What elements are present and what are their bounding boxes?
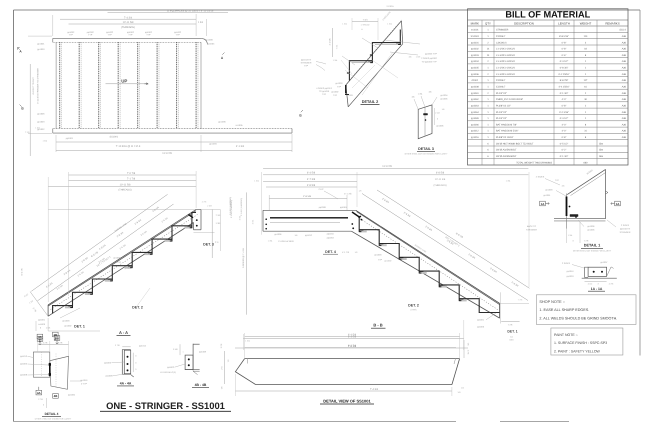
right stair corner joint marks — [352, 212, 360, 218]
svg-text:TYP: TYP — [128, 34, 133, 37]
svg-text:1'-1 5/8: 1'-1 5/8 — [329, 38, 332, 46]
svg-text:TOTAL WEIGHT THIS DRAWING: TOTAL WEIGHT THIS DRAWING — [516, 161, 552, 164]
section 4B-4B — [160, 344, 209, 388]
svg-text:pp1064: pp1064 — [471, 111, 479, 114]
svg-text:11 EQ SPACES @ 10 13/16 = 9'-1: 11 EQ SPACES @ 10 13/16 = 9'-10 15/16 — [167, 10, 214, 13]
svg-text:10'-11 5/8: 10'-11 5/8 — [123, 21, 134, 24]
svg-text:7'-4 3/4: 7'-4 3/4 — [370, 388, 379, 391]
right stair bottom end details — [500, 292, 502, 323]
svg-text:pp1002: pp1002 — [65, 325, 73, 328]
bill of material table — [468, 9, 629, 165]
svg-text:11'-3 7/8: 11'-3 7/8 — [382, 165, 392, 168]
DETAIL 1 view — [526, 168, 631, 252]
detail2 steps — [349, 30, 400, 81]
svg-text:L1-1/4X1-1/4X1/4: L1-1/4X1-1/4X1/4 — [496, 73, 515, 76]
svg-text:7'-10 9/16 @ 11 = 8'-3: 7'-10 9/16 @ 11 = 8'-3 — [116, 145, 141, 148]
svg-text:DIM: DIM — [510, 339, 514, 342]
right stair nosing dotted line — [358, 217, 499, 310]
svg-text:DETAIL VIEW OF SS1001: DETAIL VIEW OF SS1001 — [323, 398, 371, 403]
svg-text:2 SIDES: 2 SIDES — [536, 176, 545, 179]
svg-text:0'-8": 0'-8" — [562, 104, 567, 107]
svg-text:OTHER STEEL MAY NOT SHOWN FOR: OTHER STEEL MAY NOT SHOWN FOR CLARITY — [405, 153, 449, 156]
DETAIL 2 enlarged stringer view — [329, 5, 438, 107]
svg-text:pp1002: pp1002 — [125, 267, 133, 270]
detail2 left dims — [331, 28, 333, 57]
svg-text:2'-6 3/4 (LANDING): 2'-6 3/4 (LANDING) — [240, 198, 243, 216]
svg-text:pp1001: pp1001 — [66, 137, 74, 140]
svg-text:PL1/4"X2": PL1/4"X2" — [496, 117, 507, 120]
detail view of SS1001 channel — [220, 333, 470, 404]
svg-text:C10X8.7: C10X8.7 — [496, 35, 506, 38]
svg-text:pp1004: pp1004 — [471, 60, 479, 63]
landing sub dimension — [269, 198, 347, 200]
svg-text:BAT HAGS4X6 5/16": BAT HAGS4X6 5/16" — [496, 130, 518, 133]
svg-text:OTHER STEEL NOT SHOWN FOR CLAR: OTHER STEEL NOT SHOWN FOR CLARITY — [35, 417, 72, 420]
svg-text:PL1/4"X2": PL1/4"X2" — [496, 111, 507, 114]
svg-text:TYP: TYP — [304, 65, 309, 68]
svg-text:LENGTH: LENGTH — [558, 21, 570, 25]
svg-text:1. SURFACE FINISH : SSPC-SP3: 1. SURFACE FINISH : SSPC-SP3 — [554, 341, 607, 345]
detail1 heavy bar and bolts — [566, 197, 568, 217]
svg-text:B - B: B - B — [373, 323, 382, 328]
4a4a top dim — [122, 346, 130, 348]
svg-text:PL3/8"X2 15/16": PL3/8"X2 15/16" — [496, 136, 514, 139]
svg-text:CHKD_PL7-1/4X1/4X1/8": CHKD_PL7-1/4X1/4X1/8" — [496, 98, 523, 101]
svg-text:4'-1 7/8: 4'-1 7/8 — [342, 251, 350, 254]
svg-text:pp1002: pp1002 — [332, 91, 340, 94]
left stair channel chords — [48, 210, 196, 305]
plan left dimension column — [29, 64, 31, 156]
svg-text:pp1003: pp1003 — [375, 254, 383, 257]
section 4A-4A — [104, 344, 147, 386]
svg-text:DETAIL 2: DETAIL 2 — [362, 100, 379, 104]
svg-text:pp1003: pp1003 — [471, 54, 479, 57]
svg-text:4A - 4A: 4A - 4A — [120, 382, 132, 386]
svg-text:pp1013 TO: pp1013 TO — [301, 58, 312, 61]
drawing title ONE - STRINGER - SS1001 — [100, 400, 231, 411]
svg-text:pp1001: pp1001 — [37, 42, 45, 45]
svg-text:0'-6": 0'-6" — [562, 54, 567, 57]
svg-text:2 SIDES: 2 SIDES — [621, 224, 630, 227]
svg-text:REMARKS: REMARKS — [605, 21, 619, 25]
svg-text:BAT HAGS4X6 7/8": BAT HAGS4X6 7/8" — [496, 123, 517, 126]
svg-text:pp1008: pp1008 — [20, 374, 28, 377]
svg-text:7 3/4: 7 3/4 — [363, 18, 369, 21]
svg-text:pp1004: pp1004 — [209, 143, 217, 146]
svg-text:2 SIDES: 2 SIDES — [562, 262, 571, 265]
svg-text:(THREADS): (THREADS) — [121, 26, 135, 29]
svg-text:0'-8": 0'-8" — [562, 41, 567, 44]
4a4a right dim ticks — [132, 353, 134, 372]
svg-text:6'-8 5/8: 6'-8 5/8 — [436, 172, 445, 175]
ss1001 left small dims — [224, 351, 226, 384]
svg-text:1A - 1A: 1A - 1A — [591, 287, 603, 291]
svg-text:pp1006: pp1006 — [437, 125, 445, 128]
svg-text:A36: A36 — [622, 86, 627, 89]
svg-text:OTHER STEEL NOT SHOWN FOR CLAR: OTHER STEEL NOT SHOWN FOR CLARITY — [573, 250, 612, 253]
svg-text:A36: A36 — [622, 136, 627, 139]
plan bottom dimension rows — [56, 141, 201, 143]
1a1a left angle — [585, 267, 589, 277]
svg-text:8'-8 9/16": 8'-8 9/16" — [559, 35, 569, 38]
svg-text:ss1001: ss1001 — [347, 94, 355, 97]
svg-text:pp1003: pp1003 — [104, 362, 112, 365]
svg-text:11 3/16: 11 3/16 — [386, 5, 394, 8]
left vertical dims of B-B — [246, 192, 248, 314]
svg-text:1. EASE ALL SHARP EDGES.: 1. EASE ALL SHARP EDGES. — [539, 308, 589, 312]
svg-text:pp1003: pp1003 — [546, 189, 554, 192]
ss1001 top dims — [245, 336, 460, 338]
svg-text:PL1/4"X2": PL1/4"X2" — [496, 92, 507, 95]
ss1001 inner end ticks — [247, 359, 249, 364]
svg-text:0'-8": 0'-8" — [562, 48, 567, 51]
svg-text:4'-1 7/8: 4'-1 7/8 — [344, 192, 352, 195]
svg-text:0'-8 3/4": 0'-8 3/4" — [560, 67, 569, 70]
svg-text:ss1006: ss1006 — [38, 323, 46, 326]
svg-text:L1-1/4X1-1/4X1/4: L1-1/4X1-1/4X1/4 — [496, 67, 515, 70]
left stair upper-left dimension band — [31, 194, 167, 291]
svg-text:3/4"Ø HILTI KWIK BOLT TZ2 BOLT: 3/4"Ø HILTI KWIK BOLT TZ2 BOLT — [496, 142, 534, 145]
landing heavy web line — [270, 217, 348, 219]
svg-text:7'-4 3/4: 7'-4 3/4 — [124, 16, 133, 19]
svg-text:3'-11 3/4 STRINGER TO STRINGER: 3'-11 3/4 STRINGER TO STRINGER — [37, 68, 40, 104]
svg-text:pp1005: pp1005 — [588, 229, 596, 232]
svg-text:pp1001: pp1001 — [471, 41, 479, 44]
svg-text:TYP: TYP — [337, 86, 342, 89]
svg-text:pp1001: pp1001 — [477, 319, 485, 322]
svg-text:TYP: TYP — [69, 34, 74, 37]
svg-text:pp1002: pp1002 — [167, 366, 175, 369]
svg-text:4B - 4B: 4B - 4B — [195, 383, 207, 387]
svg-text:A36: A36 — [622, 73, 627, 76]
ss1001 bottom dim — [235, 390, 452, 392]
paint note box — [551, 328, 623, 355]
svg-text:pp1005: pp1005 — [441, 97, 449, 100]
svg-text:TYP: TYP — [146, 34, 151, 37]
shop note box — [536, 295, 636, 325]
detail2 corner black mark — [345, 85, 347, 94]
detail4 heavy bolt bar — [49, 363, 51, 376]
svg-text:pp1008: pp1008 — [106, 375, 114, 378]
svg-text:pp1062: pp1062 — [471, 98, 479, 101]
svg-text:6'-4 5/8: 6'-4 5/8 — [348, 334, 357, 337]
left stair elevation section A-A — [21, 171, 244, 345]
svg-text:C10X8.7: C10X8.7 — [496, 79, 506, 82]
plan rounded corner top right — [201, 38, 208, 44]
svg-text:Site: Site — [599, 142, 604, 145]
landing bolts — [265, 218, 267, 220]
svg-text:pp1003: pp1003 — [114, 257, 122, 260]
svg-text:pp1003: pp1003 — [63, 320, 71, 323]
svg-text:10'-11 5/8: 10'-11 5/8 — [435, 178, 446, 181]
section 1A-1A — [562, 261, 617, 291]
svg-text:pp1014: pp1014 — [139, 344, 147, 347]
svg-text:pp1007: pp1007 — [601, 261, 609, 264]
section flags 4A 4B below left stair — [37, 337, 43, 342]
svg-text:FLUSH at WEB: FLUSH at WEB — [278, 240, 294, 243]
svg-text:0'-1 3/4": 0'-1 3/4" — [560, 92, 569, 95]
svg-text:A36: A36 — [622, 123, 627, 126]
svg-text:pp1003: pp1003 — [37, 121, 45, 124]
svg-text:BACK TO: BACK TO — [527, 225, 536, 228]
svg-text:8'-3 7/8: 8'-3 7/8 — [348, 345, 357, 348]
svg-text:DETAIL 1: DETAIL 1 — [584, 244, 601, 248]
svg-text:WEIGHT: WEIGHT — [580, 21, 592, 25]
svg-text:ONE - STRINGER - SS1001: ONE - STRINGER - SS1001 — [106, 400, 225, 411]
B-B bottom dimensions — [243, 338, 463, 340]
svg-text:1: 1 — [182, 351, 183, 354]
svg-text:S-RISERS @ 7'-4 3/4: S-RISERS @ 7'-4 3/4 — [242, 247, 245, 268]
svg-text:pp1003: pp1003 — [20, 363, 28, 366]
svg-text:3/4"Ø A325N BOLT: 3/4"Ø A325N BOLT — [496, 149, 517, 152]
UP label and arrow — [106, 83, 145, 85]
svg-text:Site: Site — [599, 155, 604, 158]
svg-text:pp1006: pp1006 — [37, 113, 45, 116]
svg-text:TO pp1003 TYP: TO pp1003 TYP — [422, 60, 438, 63]
svg-text:STRINGER: STRINGER — [301, 62, 312, 65]
left stair bottom left dims — [30, 292, 48, 317]
svg-text:11'-3 7/8: 11'-3 7/8 — [162, 152, 172, 155]
svg-text:(TYP): (TYP) — [411, 308, 417, 311]
svg-text:pp1006: pp1006 — [471, 73, 479, 76]
1a1a right bent plate — [607, 267, 614, 277]
svg-text:2 SIDES pp1002: 2 SIDES pp1002 — [421, 57, 437, 60]
svg-text:4'-0": 4'-0" — [562, 123, 567, 126]
svg-text:L3X3X1/4: L3X3X1/4 — [496, 41, 507, 44]
svg-text:2. ALL WELDS SHOULD BE GRIND S: 2. ALL WELDS SHOULD BE GRIND SMOOTH. — [539, 317, 617, 321]
svg-text:pp1016: pp1016 — [327, 233, 335, 236]
svg-text:pp1065: pp1065 — [471, 117, 479, 120]
svg-text:STRINGER: STRINGER — [620, 231, 631, 234]
svg-text:L1X1X3/16 LG(S): L1X1X3/16 LG(S) — [160, 371, 176, 374]
svg-text:pp1003 TYP: pp1003 TYP — [425, 53, 438, 56]
svg-text:0'-2": 0'-2" — [562, 149, 567, 152]
svg-text:A36: A36 — [622, 117, 627, 120]
detail4 top dims — [38, 343, 69, 345]
svg-text:10'-11 5/8: 10'-11 5/8 — [120, 184, 131, 187]
svg-text:pp1063: pp1063 — [327, 237, 335, 240]
svg-text:TYP: TYP — [117, 261, 122, 264]
detail4 inner lines — [41, 352, 43, 377]
svg-text:pp1016: pp1016 — [567, 270, 575, 273]
svg-text:3/4"Ø A325N BOLT: 3/4"Ø A325N BOLT — [496, 155, 517, 158]
detail4 bottom flags — [36, 390, 42, 395]
svg-text:660: 660 — [584, 161, 589, 164]
detail3 inner web line — [424, 107, 426, 136]
landing channel top rails — [263, 209, 356, 211]
svg-text:1 3/4: 1 3/4 — [198, 21, 204, 24]
svg-text:DET. 3: DET. 3 — [203, 243, 214, 247]
svg-text:A36: A36 — [622, 111, 627, 114]
svg-text:pp1016 TO: pp1016 TO — [620, 227, 631, 230]
svg-text:1 3/4: 1 3/4 — [216, 222, 222, 225]
svg-text:6'-4 5/8: 6'-4 5/8 — [307, 172, 316, 175]
svg-text:pp1064: pp1064 — [340, 206, 348, 209]
svg-text:pp1004: pp1004 — [441, 94, 449, 97]
stair plan view — [18, 10, 333, 156]
svg-text:pp1002: pp1002 — [385, 260, 393, 263]
svg-text:STRINGER: STRINGER — [526, 228, 537, 231]
svg-text:ss1006: ss1006 — [235, 124, 243, 127]
svg-text:pp1001: pp1001 — [38, 319, 46, 322]
left stair nosing dotted line — [51, 215, 198, 310]
svg-text:CLIP: CLIP — [319, 188, 324, 191]
plan top dimension row — [108, 12, 229, 14]
svg-text:TYP: TYP — [108, 34, 113, 37]
svg-text:MARK: MARK — [471, 21, 479, 25]
DETAIL 4 view — [20, 332, 88, 420]
svg-text:ss1001: ss1001 — [471, 29, 479, 32]
svg-text:DET. 2: DET. 2 — [408, 303, 419, 307]
svg-text:A36: A36 — [622, 79, 627, 82]
svg-text:TO pp1016: TO pp1016 — [319, 90, 330, 93]
svg-text:pp1006: pp1006 — [588, 225, 596, 228]
svg-text:TYP: TYP — [88, 34, 93, 37]
svg-text:0'-3 1/2": 0'-3 1/2" — [560, 60, 569, 63]
svg-text:pp1003: pp1003 — [567, 275, 575, 278]
svg-text:UP: UP — [121, 78, 127, 83]
svg-text:0'-5 1/2": 0'-5 1/2" — [560, 142, 569, 145]
svg-text:A - A: A - A — [119, 330, 128, 335]
svg-text:DET. 4: DET. 4 — [325, 250, 336, 254]
svg-text:0'-1 3/4": 0'-1 3/4" — [560, 155, 569, 158]
svg-text:SS1001: SS1001 — [110, 135, 119, 138]
svg-text:d1002: d1002 — [472, 79, 479, 82]
svg-text:SS1001: SS1001 — [471, 35, 480, 38]
svg-text:pp1061: pp1061 — [544, 194, 552, 197]
svg-text:A36: A36 — [622, 41, 627, 44]
svg-text:7 1/4: 7 1/4 — [216, 214, 222, 217]
svg-text:(THREADS): (THREADS) — [433, 184, 446, 187]
svg-text:A36: A36 — [622, 67, 627, 70]
svg-text:A36: A36 — [622, 130, 627, 133]
svg-text:4'-7 3/8: 4'-7 3/8 — [307, 178, 316, 181]
svg-text:4'-1 3/4: 4'-1 3/4 — [236, 145, 245, 148]
svg-text:pp1005: pp1005 — [218, 121, 226, 124]
svg-text:A36: A36 — [622, 92, 627, 95]
svg-text:pp1016: pp1016 — [81, 379, 89, 382]
svg-text:L1-1/4X1-1/4X1/4: L1-1/4X1-1/4X1/4 — [496, 48, 515, 51]
svg-text:C10X8.7: C10X8.7 — [496, 86, 506, 89]
svg-text:pp1008: pp1008 — [471, 86, 479, 89]
svg-text:4'-8 5/8: 4'-8 5/8 — [307, 184, 316, 187]
svg-text:pp1003: pp1003 — [336, 82, 344, 85]
svg-text:TYP: TYP — [378, 258, 383, 261]
svg-text:2. PAINT : SAFETY YELLOW: 2. PAINT : SAFETY YELLOW — [554, 349, 601, 353]
svg-text:0'-2 15/16": 0'-2 15/16" — [558, 73, 569, 76]
svg-text:pp1012: pp1012 — [471, 130, 479, 133]
svg-text:pp1003: pp1003 — [37, 48, 45, 51]
right stair elevation section B-B — [230, 165, 530, 350]
svg-text:4'-0": 4'-0" — [562, 130, 567, 133]
left stair steps zigzag — [53, 213, 196, 314]
1a1a dims — [585, 281, 607, 283]
detail1 flags — [540, 201, 546, 206]
svg-text:TYP: TYP — [322, 93, 327, 96]
right stair tread clip angles — [359, 230, 367, 232]
left stair top end bolts — [196, 219, 198, 221]
svg-text:4'-0": 4'-0" — [562, 98, 567, 101]
detail1 bottom dims — [566, 229, 568, 243]
left stair top dimension rows — [69, 174, 197, 176]
svg-text:pp1012: pp1012 — [305, 234, 313, 237]
1a1a base line — [582, 277, 617, 279]
svg-text:A36: A36 — [622, 54, 627, 57]
svg-text:pp1008: pp1008 — [205, 38, 213, 41]
svg-text:STRINGER: STRINGER — [496, 29, 509, 32]
svg-text:pp1016: pp1016 — [471, 136, 479, 139]
detail3 small black mark — [424, 114, 428, 116]
left stair tread clip angles — [65, 306, 73, 308]
svg-text:A36: A36 — [622, 48, 627, 51]
DETAIL 3 view — [405, 91, 449, 156]
svg-text:pp1063: pp1063 — [471, 104, 479, 107]
svg-text:Site: Site — [599, 149, 604, 152]
svg-text:(THREADS): (THREADS) — [118, 188, 131, 191]
svg-text:0'-8": 0'-8" — [562, 136, 567, 139]
plan tread lines — [59, 42, 61, 128]
detail2 riser black marks — [347, 72, 350, 74]
svg-text:pp1066: pp1066 — [471, 123, 479, 126]
svg-text:7'-0 7/8: 7'-0 7/8 — [127, 172, 136, 175]
svg-text:L1-1/4X1-1/4X1/4: L1-1/4X1-1/4X1/4 — [496, 60, 515, 63]
right stair channel chords — [356, 210, 500, 303]
svg-text:pp1005: pp1005 — [471, 67, 479, 70]
svg-text:pp1013: pp1013 — [20, 355, 28, 358]
svg-text:8'-6 7/8: 8'-6 7/8 — [21, 268, 24, 276]
svg-text:L1-1/4X1-1/4X1/4: L1-1/4X1-1/4X1/4 — [496, 54, 515, 57]
left stair bottom extension line — [48, 330, 100, 332]
svg-text:PL3/8"X2 1/2": PL3/8"X2 1/2" — [496, 104, 511, 107]
svg-text:7'-1 7/8: 7'-1 7/8 — [127, 178, 136, 181]
svg-text:4'-0 OUT TO OUT: 4'-0 OUT TO OUT — [32, 77, 35, 95]
svg-text:SS1-2: SS1-2 — [619, 29, 626, 32]
left stair right side extension and dims — [48, 208, 196, 210]
svg-text:TYP: TYP — [333, 94, 338, 97]
detail2 leader lines — [342, 56, 355, 65]
right stair overall top dimension — [263, 167, 528, 169]
svg-text:2-TYP: 2-TYP — [81, 382, 88, 385]
svg-text:A36: A36 — [622, 60, 627, 63]
svg-text:A36: A36 — [622, 35, 627, 38]
svg-text:A36: A36 — [622, 104, 627, 107]
svg-text:pp1005: pp1005 — [68, 394, 76, 397]
svg-text:pp1004: pp1004 — [207, 43, 215, 46]
detail1 tick right edge — [606, 191, 609, 194]
svg-text:pp1002: pp1002 — [471, 48, 479, 51]
svg-text:DET. 2: DET. 2 — [132, 306, 143, 310]
svg-text:0'-3 1/2": 0'-3 1/2" — [560, 117, 569, 120]
svg-text:1 TREAD: 1 TREAD — [361, 24, 370, 27]
detail2 top dims — [352, 21, 378, 23]
svg-text:SHOP NOTE :-: SHOP NOTE :- — [539, 300, 565, 304]
svg-text:PAINT NOTE :-: PAINT NOTE :- — [554, 333, 579, 337]
right stair dimension band upper right — [362, 194, 528, 301]
svg-text:TYP: TYP — [555, 179, 560, 182]
detail2 nosing dotted — [350, 20, 403, 81]
svg-text:pp1008: pp1008 — [319, 206, 327, 209]
svg-text:DETAIL 4: DETAIL 4 — [45, 412, 59, 416]
svg-text:pp1006: pp1006 — [275, 233, 283, 236]
svg-text:pp1008: pp1008 — [199, 350, 207, 353]
ss1001 right small dims — [463, 340, 465, 358]
detail3 top cluster — [414, 99, 418, 109]
svg-text:DETAIL 3: DETAIL 3 — [418, 147, 434, 151]
svg-text:DET. 1: DET. 1 — [507, 330, 517, 334]
landing top dimension rows — [263, 174, 528, 176]
svg-text:2'-6 3/4 (LANDING): 2'-6 3/4 (LANDING) — [230, 200, 233, 218]
detail4 flags top — [37, 334, 43, 339]
